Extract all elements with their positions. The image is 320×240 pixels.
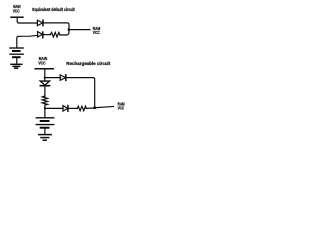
svg-text:VCC: VCC: [93, 30, 100, 35]
ground (top circuit): [11, 63, 22, 65]
wire: D5 to resistor R3: [68, 107, 77, 109]
wire: battery to ground: [44, 128, 46, 135]
node: output junction (bottom circuit): [93, 106, 96, 109]
wire: battery to ground: [16, 57, 18, 64]
node: junction at top branch takeoff: [44, 77, 46, 79]
svg-text:VCC: VCC: [13, 8, 20, 13]
battery B1 (two cells): [10, 47, 23, 49]
wire: junction to RAM VCC: [95, 107, 114, 108]
diode D3 (top branch, bottom circuit): [60, 75, 65, 80]
diode D4 (vertical, pointing down): [40, 81, 49, 85]
svg-text:Equivalent default circuit: Equivalent default circuit: [32, 7, 75, 12]
wire: D1 to corner, down to junction: [43, 23, 69, 30]
wire: junction right to diode D5: [45, 107, 63, 109]
node: output junction (top circuit): [68, 28, 71, 31]
svg-text:Rechargeable circuit: Rechargeable circuit: [66, 61, 110, 66]
resistor R2 (vertical zigzag): [42, 96, 47, 105]
wire: R3 to output junction: [86, 107, 94, 109]
diode D2 (battery branch): [38, 32, 43, 37]
diode D5 (bottom branch): [63, 106, 68, 112]
svg-text:VCC: VCC: [118, 105, 125, 110]
wire: D3 right and down to output junction: [66, 78, 95, 108]
power rail bar MAIN VCC (bottom circuit): [35, 68, 53, 70]
wire: rail stem down and right to diode D1: [17, 17, 37, 23]
diode D1 (top branch): [37, 20, 42, 25]
ground (bottom circuit): [39, 134, 51, 136]
wire: battery B1 up and right to diode D2: [17, 35, 38, 47]
node: junction to bottom branch: [44, 107, 46, 109]
wire: junction to diode D3: [45, 77, 61, 79]
wire: rail stem down through junction to diode D4: [44, 69, 46, 81]
resistor R3 (zigzag): [77, 106, 86, 111]
wire: R1 up to junction: [60, 30, 69, 35]
svg-text:VCC: VCC: [38, 60, 45, 65]
power rail bar MAIN VCC (top-left): [11, 16, 23, 18]
wire: junction to RAM VCC: [69, 29, 90, 31]
resistor R1 (zigzag): [50, 32, 60, 37]
wire: R2 down to junction: [44, 105, 46, 117]
wire: D4 to resistor R2: [44, 86, 46, 97]
wire: D2 to resistor R1: [43, 34, 51, 36]
battery B2 (two cells): [36, 117, 54, 119]
